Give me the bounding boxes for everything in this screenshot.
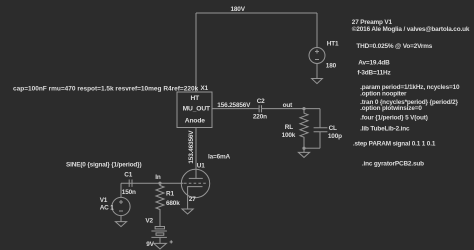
svg-text:CL: CL — [329, 125, 337, 132]
svg-text:.four {1/period} 5 V(out): .four {1/period} 5 V(out) — [360, 115, 428, 122]
svg-text:SINE(0 {signal} {1/period}): SINE(0 {signal} {1/period}) — [66, 161, 142, 168]
svg-text:180V: 180V — [231, 6, 246, 13]
ground RL/CL — [298, 152, 309, 157]
svg-text:156.25856V: 156.25856V — [217, 102, 251, 109]
wire V1 to ground — [120, 216, 122, 222]
svg-text:R1: R1 — [166, 191, 174, 198]
svg-text:680k: 680k — [166, 200, 180, 207]
svg-text:MU_OUT: MU_OUT — [183, 105, 211, 112]
wire right drop to HT1 — [316, 13, 318, 48]
ground V2 — [154, 243, 167, 249]
junction dot In — [158, 182, 161, 185]
wire left drop to X1 — [195, 13, 197, 92]
voltage source V1 — [120, 183, 122, 197]
resistor RL — [300, 109, 308, 149]
battery V2 — [151, 227, 172, 244]
svg-text:.option noopiter: .option noopiter — [360, 91, 407, 98]
svg-text:.option plotwinsize=0: .option plotwinsize=0 — [360, 105, 422, 112]
wire HT1 to ground — [316, 64, 318, 79]
svg-text:THD=0.025% @ Vo=2Vrms: THD=0.025% @ Vo=2Vrms — [356, 43, 432, 50]
svg-text:153.46356V: 153.46356V — [188, 130, 195, 164]
wire RL/CL bottom junction — [304, 147, 320, 149]
svg-text:RL: RL — [285, 124, 293, 131]
svg-text:U1: U1 — [197, 162, 205, 169]
svg-text:27: 27 — [189, 196, 196, 203]
svg-text:In: In — [155, 174, 161, 181]
svg-text:150n: 150n — [122, 189, 136, 196]
ground cathode — [182, 209, 193, 214]
resistor R1 — [156, 183, 164, 226]
wire C2 to out node — [262, 108, 320, 110]
svg-text:.inc gyratorPCB2.sub: .inc gyratorPCB2.sub — [362, 160, 424, 167]
svg-text:220n: 220n — [253, 114, 267, 121]
wire to ground — [303, 148, 305, 152]
svg-text:9V: 9V — [146, 241, 154, 248]
svg-text:X1: X1 — [201, 85, 209, 92]
cathode — [188, 187, 203, 209]
capacitor CL — [319, 109, 321, 128]
svg-text:.lib TubeLib-2.inc: .lib TubeLib-2.inc — [360, 126, 410, 133]
wire grid line In — [121, 182, 184, 184]
junction dot — [302, 147, 305, 150]
ground HT1 — [312, 79, 323, 84]
svg-text:©2016 Ale Moglia / valves@bart: ©2016 Ale Moglia / valves@bartola.co.uk — [352, 25, 470, 33]
svg-text:180: 180 — [326, 62, 337, 69]
svg-text:HT1: HT1 — [327, 40, 339, 47]
svg-text:27 Preamp V1: 27 Preamp V1 — [352, 19, 393, 26]
svg-text:cap=100nF rmu=470 respot=1.5k: cap=100nF rmu=470 respot=1.5k resvref=10… — [13, 86, 199, 93]
svg-text:AC 1: AC 1 — [100, 204, 115, 211]
ground V1 — [115, 222, 126, 227]
svg-text:Av=19.4dB: Av=19.4dB — [358, 60, 390, 67]
wire X1 MU_OUT to C2 — [212, 108, 259, 110]
junction dot out — [302, 107, 305, 110]
wire X1 Anode to tube anode — [195, 128, 197, 179]
svg-text:Ia=6mA: Ia=6mA — [208, 153, 231, 160]
svg-text:100k: 100k — [282, 132, 296, 139]
op-amp X1 gyrator block — [177, 92, 212, 128]
capacitor C1 — [129, 180, 132, 187]
svg-text:V2: V2 — [145, 218, 153, 225]
svg-text:100p: 100p — [328, 133, 342, 140]
svg-text:V1: V1 — [100, 197, 108, 204]
svg-text:C2: C2 — [257, 98, 265, 105]
grid (dashed) — [184, 182, 207, 184]
svg-text:Anode: Anode — [185, 118, 205, 125]
voltage source HT1 — [309, 48, 325, 64]
anode plate — [189, 177, 203, 179]
wire top rail 180V — [196, 12, 317, 14]
svg-text:out: out — [283, 102, 294, 109]
triode U1 — [181, 169, 209, 209]
svg-text:C1: C1 — [124, 171, 132, 178]
svg-text:.step PARAM signal 0.1 1 0.1: .step PARAM signal 0.1 1 0.1 — [353, 141, 436, 148]
svg-text:f-3dB=11Hz: f-3dB=11Hz — [357, 70, 390, 77]
svg-text:HT: HT — [190, 95, 200, 102]
capacitor C2 — [259, 105, 261, 112]
